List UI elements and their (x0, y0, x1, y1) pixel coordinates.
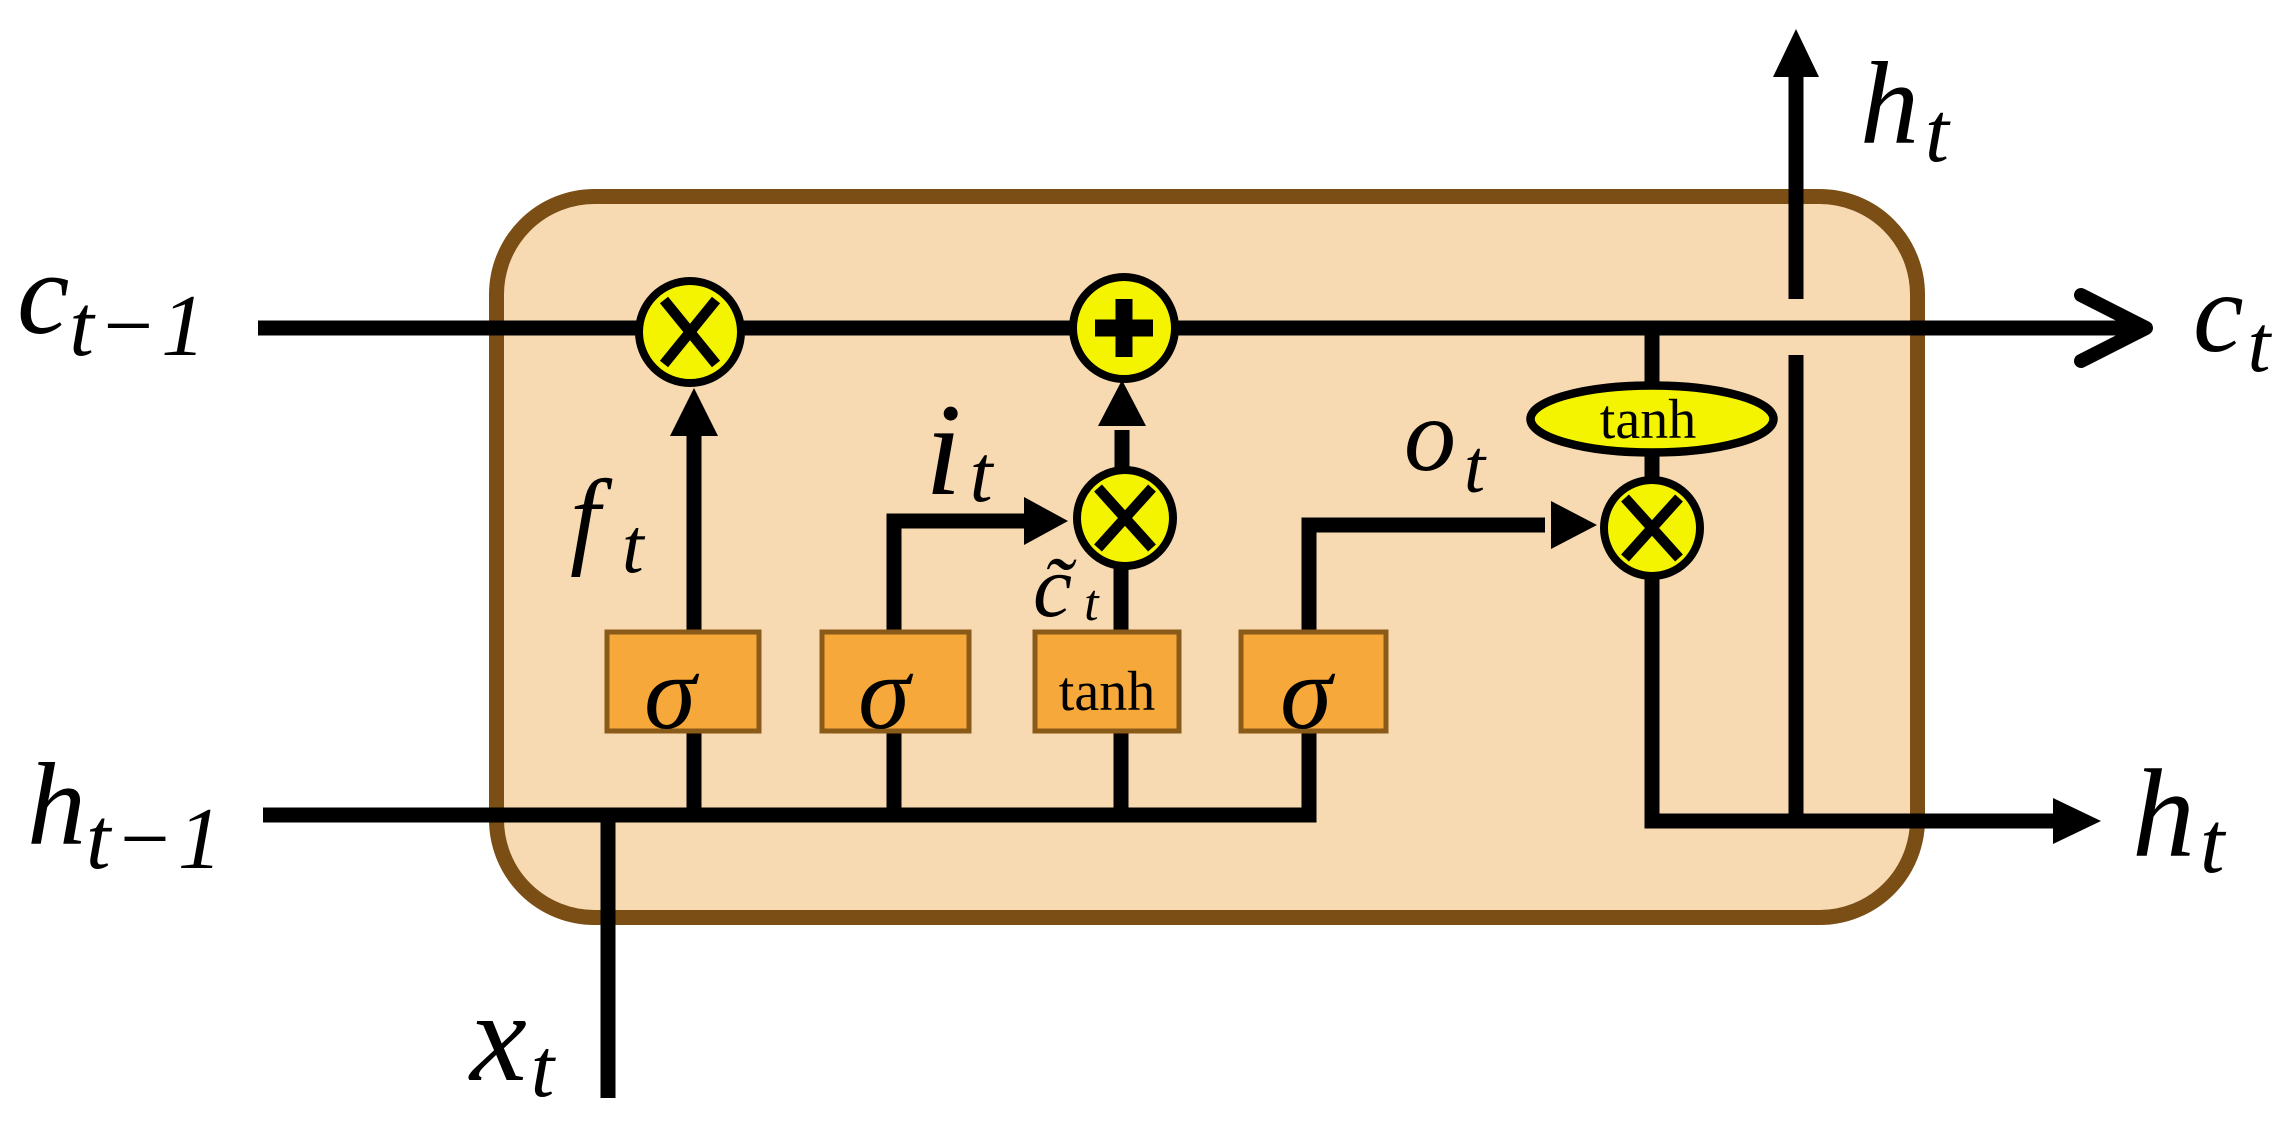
svg-text:xt: xt (468, 966, 557, 1115)
svg-text:ct: ct (2193, 249, 2273, 389)
svg-text:ct−1: ct−1 (17, 228, 209, 375)
wire h_t top vertical (with gap at c-line) (1789, 70, 1804, 299)
wire output x-circle down and right to h_t (1652, 528, 2058, 821)
arrowhead o_t into output x-circle (1551, 501, 1597, 549)
svg-text:ht−1: ht−1 (27, 739, 226, 888)
wire input x-circle up to plus (1115, 430, 1130, 520)
arrowhead into plus circle (1098, 380, 1146, 426)
arrowhead h_t top (1773, 29, 1819, 77)
arrowhead h_t right (2053, 798, 2101, 844)
wire tanh box feed to input x-circle (1114, 520, 1129, 815)
input multiply circle (1077, 470, 1173, 566)
svg-text:ht: ht (1860, 38, 1951, 180)
wire x_t input (601, 815, 616, 1098)
svg-text:σ: σ (644, 634, 700, 751)
wire c-line branch down through tanh ellipse (1645, 328, 1660, 530)
arrowhead f_t (670, 388, 718, 436)
wire h_{t-1} bottom line to o-gate sigma (263, 525, 1545, 815)
svg-text:ht: ht (2132, 745, 2227, 892)
svg-text:σ: σ (1280, 634, 1336, 751)
LSTM cell body (497, 197, 1918, 918)
wire c_{t-1} to c_t (cell state line) (258, 321, 2132, 336)
arrowhead c_t (chevron) (2081, 295, 2146, 361)
wire input gate feed + i_t elbow (894, 521, 1028, 815)
forget multiply circle (639, 281, 741, 383)
output multiply circle (1604, 480, 1700, 576)
sigma box 2 (input gate) (822, 632, 969, 751)
arrowhead i_t (1024, 497, 1068, 545)
svg-text:σ: σ (858, 634, 914, 751)
sigma box 4 (output gate) (1241, 632, 1386, 751)
svg-text:tanh: tanh (1059, 661, 1155, 723)
sigma box 1 (forget gate) (607, 632, 759, 751)
wire forget gate feed (sigma1 up to x-circle) (687, 432, 702, 815)
svg-text:tanh: tanh (1600, 389, 1696, 451)
tanh ellipse (1531, 386, 1774, 453)
plus circle (1073, 277, 1175, 379)
tanh box (candidate) (1035, 632, 1179, 731)
